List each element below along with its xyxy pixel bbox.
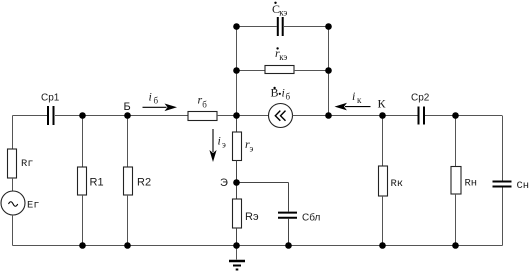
resistor Rэ bbox=[233, 199, 242, 228]
node dot mid-right loop bbox=[325, 67, 332, 74]
capacitor Сбл bbox=[278, 213, 297, 218]
wire R1 branch upper bbox=[82, 116, 84, 168]
svg-text:э: э bbox=[250, 144, 254, 154]
resistor r_кэ bbox=[265, 66, 294, 74]
svg-text:Э: Э bbox=[220, 177, 228, 189]
label r_э bbox=[245, 137, 254, 154]
svg-text:i: i bbox=[218, 134, 221, 148]
wire Rн branch lower bbox=[455, 194, 457, 246]
capacitor Cp1 bbox=[48, 106, 54, 125]
label Ċкэ bbox=[272, 2, 288, 18]
node dot Б bbox=[124, 112, 131, 119]
wire Rг to Eг bbox=[12, 178, 14, 191]
node dot bottom Rн bbox=[452, 242, 459, 249]
svg-text:Сн: Сн bbox=[517, 180, 530, 192]
svg-text:Ег: Ег bbox=[27, 200, 40, 212]
svg-text:Сбл: Сбл bbox=[302, 212, 321, 224]
label ṙкэ bbox=[275, 46, 288, 62]
node dot mid-left loop bbox=[233, 67, 240, 74]
wire r_э to node Э bbox=[236, 161, 238, 183]
wire right vertical of feedback loop bbox=[328, 27, 330, 116]
svg-text:R1: R1 bbox=[90, 177, 104, 189]
node dot Cp1 out bbox=[79, 112, 86, 119]
wire generator branch upper bbox=[12, 116, 14, 150]
wire current source to Cp2 bbox=[293, 115, 419, 117]
node dot top-left loop bbox=[233, 23, 240, 30]
svg-text:Rк: Rк bbox=[391, 178, 404, 190]
resistor R2 bbox=[124, 167, 133, 195]
label i_э bbox=[218, 134, 227, 150]
svg-text:R2: R2 bbox=[137, 177, 151, 189]
wire Э to Rэ bbox=[236, 183, 238, 200]
svg-text:б: б bbox=[202, 100, 207, 110]
arrow i_э bbox=[209, 129, 216, 162]
svg-text:кэ: кэ bbox=[279, 8, 287, 18]
wire main rail Cp1 to r_b bbox=[55, 115, 188, 117]
resistor r_э bbox=[233, 132, 242, 161]
resistor Rк bbox=[379, 166, 388, 196]
label i_б bbox=[149, 90, 159, 106]
node dot К bbox=[379, 112, 386, 119]
resistor r_b (r_б) bbox=[188, 112, 217, 121]
svg-text:i: i bbox=[282, 86, 285, 100]
svg-text:Rэ: Rэ bbox=[245, 211, 259, 223]
resistor Rн bbox=[451, 167, 461, 195]
arrow i_б bbox=[143, 104, 178, 112]
svg-text:Б: Б bbox=[124, 101, 131, 113]
wire r_э upper stub bbox=[236, 116, 238, 133]
wire Rк branch lower bbox=[382, 196, 384, 246]
wire node Э to Сбл branch bbox=[237, 182, 289, 184]
wire R2 branch upper bbox=[127, 116, 129, 168]
wire left vertical of feedback loop bbox=[236, 27, 238, 116]
node dot bottom Rк bbox=[379, 242, 386, 249]
node dot bottom ground bbox=[233, 242, 240, 249]
capacitor C_кэ bbox=[278, 17, 283, 36]
svg-text:Rг: Rг bbox=[21, 158, 34, 170]
wire mid branch left (r_ke branch) bbox=[237, 70, 266, 72]
capacitor Cp2 bbox=[419, 107, 425, 125]
wire Rэ to bottom rail bbox=[236, 228, 238, 246]
wire top branch right bbox=[284, 26, 329, 28]
svg-text:Ср2: Ср2 bbox=[411, 93, 430, 104]
capacitor Сн bbox=[493, 182, 512, 187]
label i_к bbox=[352, 89, 362, 105]
wire Сн branch upper bbox=[502, 116, 504, 181]
label r_б bbox=[198, 93, 208, 110]
svg-text:э: э bbox=[222, 140, 226, 150]
label B·i_б with dot bbox=[271, 86, 291, 102]
svg-text:к: к bbox=[357, 95, 362, 105]
svg-text:Ср1: Ср1 bbox=[41, 93, 60, 104]
svg-text:Rн: Rн bbox=[465, 178, 478, 190]
node dot base-r_э junction bbox=[233, 112, 240, 119]
svg-text:б: б bbox=[154, 96, 159, 106]
wire R1 branch lower bbox=[82, 195, 84, 246]
svg-text:i: i bbox=[352, 89, 355, 103]
node dot bottom Сбл bbox=[285, 242, 292, 249]
wire Сн branch lower bbox=[502, 188, 504, 246]
wire Cp2 to right edge bbox=[425, 115, 502, 117]
wire Сбл branch upper bbox=[288, 183, 290, 212]
wire Rн branch upper bbox=[455, 116, 457, 167]
node dot bottom R2 bbox=[124, 242, 131, 249]
wire Rк branch upper bbox=[382, 116, 384, 167]
wire r_b to current source bbox=[217, 115, 269, 117]
current source U1 (B·i_б) bbox=[269, 104, 293, 128]
svg-text:К: К bbox=[378, 97, 387, 111]
resistor R1 bbox=[78, 167, 87, 195]
wire Сбл branch lower bbox=[288, 219, 290, 246]
source Eг bbox=[1, 191, 25, 215]
node dot top-right loop bbox=[325, 23, 332, 30]
wire bottom rail bbox=[13, 245, 503, 247]
wire R2 branch lower bbox=[127, 195, 129, 246]
wire Eг to bottom rail bbox=[12, 215, 14, 246]
resistor Rг bbox=[8, 149, 17, 178]
wire mid branch right bbox=[294, 70, 329, 72]
svg-text:б: б bbox=[286, 92, 291, 102]
node dot Rн top bbox=[452, 112, 459, 119]
arrow i_к bbox=[335, 103, 371, 111]
node dot Э bbox=[233, 179, 240, 186]
wire main rail left segment (input to Cp1) bbox=[13, 115, 48, 117]
ground bbox=[229, 246, 245, 270]
svg-text:i: i bbox=[149, 90, 152, 104]
node dot collector junction bbox=[325, 112, 332, 119]
node dot bottom R1 bbox=[79, 242, 86, 249]
wire top branch left (C_ke branch) bbox=[237, 26, 277, 28]
svg-text:кэ: кэ bbox=[279, 52, 287, 62]
